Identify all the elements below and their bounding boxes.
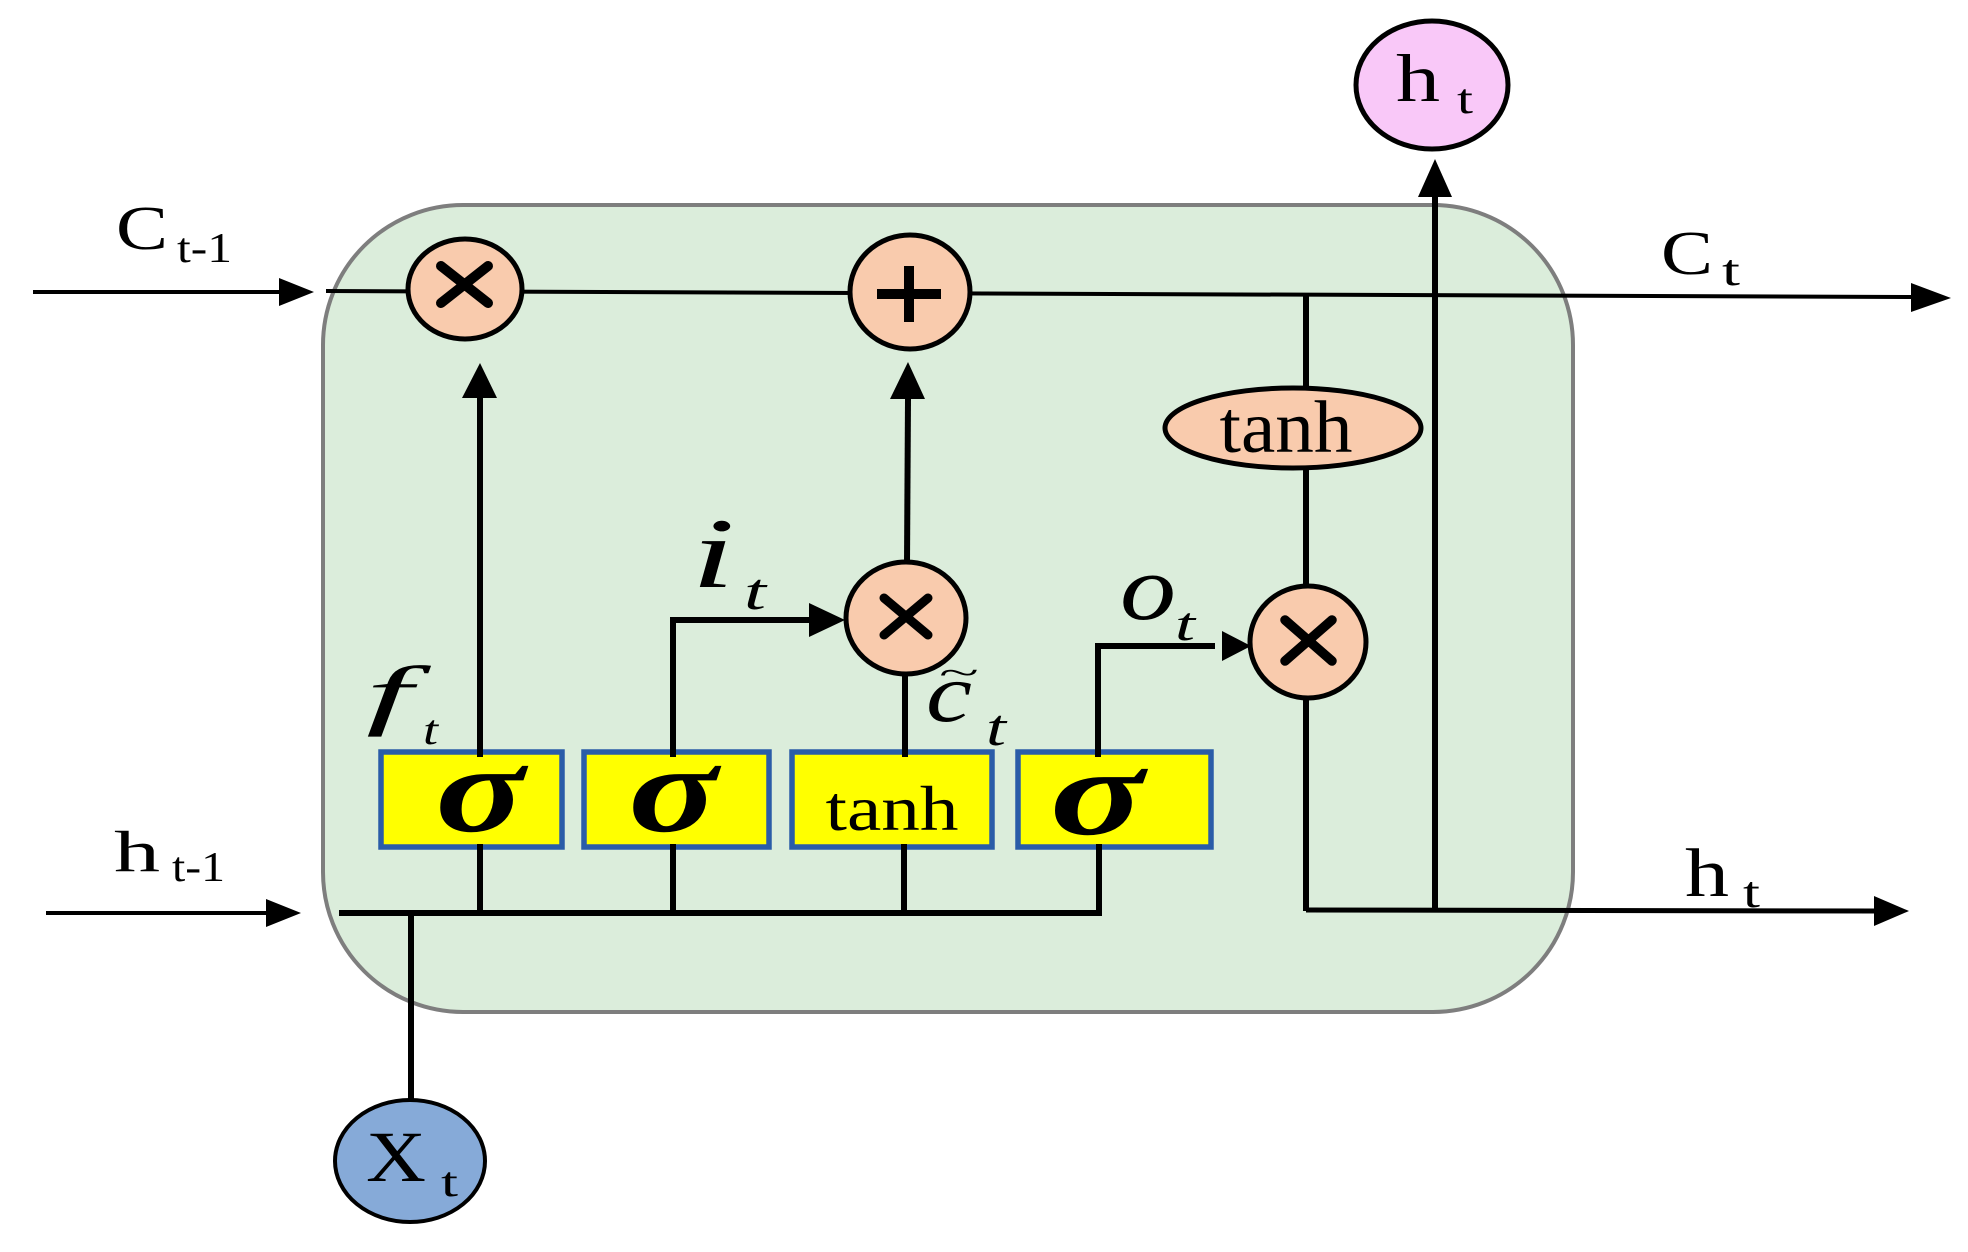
- svg-text:t: t: [986, 700, 1008, 757]
- wire o_t elbow with arrow: [1098, 631, 1251, 757]
- svg-text:h: h: [1685, 835, 1729, 911]
- wire multiply gate to plus gate with arrow: [890, 362, 925, 564]
- wire C input arrow: [33, 278, 314, 306]
- wire h inner left segment: [339, 910, 1102, 916]
- svg-text:t: t: [1743, 868, 1760, 917]
- node X_t input ellipse: [335, 1100, 485, 1222]
- svg-text:t: t: [441, 1160, 458, 1206]
- wire h input arrow: [46, 899, 301, 927]
- svg-text:t-1: t-1: [172, 845, 225, 891]
- wire h right segment: [1306, 910, 1874, 911]
- multiply gate input: [846, 562, 966, 674]
- svg-text:o: o: [1120, 537, 1176, 639]
- wire x_t drop: [408, 911, 414, 1101]
- wire C main horizontal: [326, 291, 1916, 297]
- sigma box input gate: [584, 721, 769, 858]
- label h_t right: [1685, 835, 1760, 917]
- label i_t: [691, 498, 768, 621]
- svg-text:C: C: [116, 195, 168, 263]
- wire candidate to multiply gate: [902, 676, 908, 757]
- label h_t-1: [114, 819, 225, 891]
- tanh box candidate: [792, 752, 992, 847]
- wire h_t up arrow: [1418, 159, 1452, 911]
- svg-text:~: ~: [938, 655, 978, 692]
- label f_t: [366, 650, 440, 754]
- label C_t-1: [116, 195, 232, 272]
- wire C branch down through tanh to output multiply: [1303, 294, 1309, 911]
- svg-text:tanh: tanh: [826, 774, 959, 844]
- multiply gate forget: [408, 239, 522, 339]
- plus gate: [850, 235, 970, 349]
- multiply gate output: [1250, 586, 1366, 698]
- wire h output arrowhead: [1874, 896, 1909, 926]
- label o_t: [1120, 537, 1197, 651]
- svg-text:t: t: [744, 564, 768, 621]
- wire below tanh box: [901, 844, 907, 916]
- svg-text:t-1: t-1: [177, 226, 232, 272]
- svg-text:t: t: [1457, 77, 1473, 123]
- wire below output gate: [1096, 844, 1102, 916]
- wire below forget gate: [477, 844, 483, 916]
- label C_t: [1661, 220, 1740, 295]
- svg-text:X: X: [366, 1117, 426, 1197]
- svg-text:i: i: [691, 498, 735, 609]
- sigma box forget gate: [381, 721, 562, 858]
- label c~_t: [926, 647, 1008, 757]
- svg-text:h: h: [1396, 40, 1440, 116]
- svg-text:t: t: [1175, 598, 1197, 651]
- svg-text:t: t: [423, 708, 440, 754]
- node h_t output ellipse: [1356, 21, 1508, 149]
- sigma box output gate: [1018, 724, 1211, 861]
- svg-text:tanh: tanh: [1220, 387, 1353, 469]
- wire below input gate: [670, 844, 676, 916]
- tanh ellipse: [1165, 387, 1421, 469]
- wire i_t elbow with arrow: [673, 603, 845, 757]
- wire f_t vertical with arrow into multiply gate: [462, 363, 497, 757]
- svg-text:h: h: [114, 819, 160, 884]
- LSTM cell body: [323, 205, 1573, 1012]
- svg-text:t: t: [1722, 246, 1740, 295]
- wire C output arrowhead: [1911, 283, 1951, 312]
- svg-text:C: C: [1661, 220, 1713, 288]
